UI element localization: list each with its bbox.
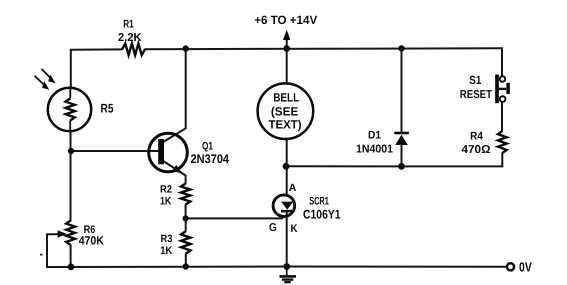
svg-text:C106Y1: C106Y1	[303, 207, 341, 221]
svg-text:D1: D1	[368, 130, 381, 142]
svg-text:(SEE: (SEE	[271, 105, 298, 119]
svg-text:470Ω: 470Ω	[462, 144, 491, 156]
svg-text:R2: R2	[160, 183, 172, 195]
svg-text:R5: R5	[101, 101, 114, 115]
svg-text:A: A	[289, 182, 297, 194]
svg-text:R4: R4	[470, 131, 483, 143]
svg-text:1K: 1K	[160, 245, 172, 257]
svg-text:2N3704: 2N3704	[191, 152, 230, 166]
svg-text:1K: 1K	[160, 196, 171, 208]
svg-text:SCR1: SCR1	[309, 196, 329, 208]
svg-text:470K: 470K	[79, 234, 104, 248]
svg-text:0V: 0V	[519, 259, 532, 274]
svg-text:R1: R1	[123, 19, 134, 31]
svg-text:BELL: BELL	[273, 91, 299, 105]
svg-text:K: K	[291, 223, 298, 235]
svg-text:RESET: RESET	[460, 89, 492, 101]
svg-text:S1: S1	[469, 73, 481, 87]
svg-text:+6 TO +14V: +6 TO +14V	[254, 13, 317, 27]
svg-text:2.2K: 2.2K	[118, 32, 142, 44]
svg-text:R3: R3	[161, 233, 173, 245]
svg-text:1N4001: 1N4001	[356, 143, 394, 155]
svg-text:TEXT): TEXT)	[269, 118, 302, 132]
svg-text:G: G	[269, 222, 277, 234]
